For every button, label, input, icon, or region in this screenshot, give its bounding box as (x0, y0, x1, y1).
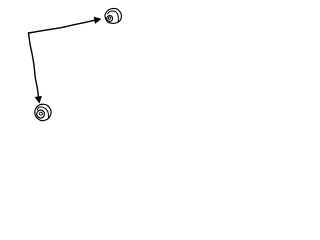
node B (bottom left): tiny circle (39, 112, 42, 115)
arrowhead into bottom-left node (35, 96, 42, 104)
wire: elbow to top-right node (29, 20, 97, 33)
node A (top right): inner circle (107, 16, 113, 22)
node A (top right): tiny circle (108, 17, 110, 20)
node B (bottom left): middle spiral turn (37, 107, 48, 118)
wire: elbow to bottom-left node (29, 33, 39, 99)
arrowhead into top-right node (94, 17, 102, 24)
node A (top right): outer circle (105, 8, 121, 23)
node A (top right): middle spiral turn (108, 11, 119, 22)
node B (bottom left): outer circle (35, 104, 51, 120)
node B (bottom left): inner circle (37, 110, 45, 118)
